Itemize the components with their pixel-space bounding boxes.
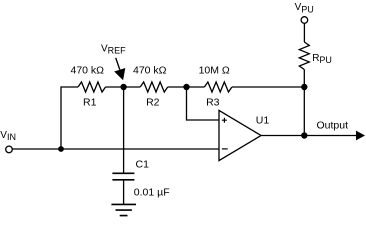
resistor R1 (78, 82, 106, 92)
ground (111, 204, 136, 215)
VREF pointer arrowhead (114, 68, 125, 80)
node VREF junction dot (120, 84, 126, 90)
svg-text:RPU: RPU (312, 53, 332, 65)
svg-text:R1: R1 (83, 96, 97, 108)
svg-text:470 kΩ: 470 kΩ (71, 65, 105, 77)
wire C1 to ground (123, 180, 125, 205)
svg-text:R3: R3 (206, 96, 220, 108)
wire op-amp output (261, 135, 356, 137)
svg-text:VIN: VIN (0, 130, 16, 142)
node B junction dot (noninverting branch) (183, 84, 189, 90)
wire R2 to node B (168, 86, 205, 88)
node C junction dot (R3 / RPU) (301, 84, 307, 90)
svg-text:10M Ω: 10M Ω (199, 65, 230, 77)
op-amp U1 minus pin (222, 148, 228, 150)
terminal VPU (301, 17, 308, 24)
input terminal VIN (6, 146, 13, 153)
wire pull-up node down to output (303, 87, 305, 136)
resistor R2 (140, 82, 168, 92)
wire node B down to noninverting input (187, 87, 220, 120)
resistor RPU (299, 42, 309, 70)
svg-text:Output: Output (317, 120, 349, 132)
svg-text:470 kΩ: 470 kΩ (133, 65, 167, 77)
wire VPU terminal to RPU (303, 23, 305, 42)
VREF pointer arrow line (116, 58, 120, 70)
svg-text:VREF: VREF (101, 44, 126, 56)
wire R1 to node VREF (106, 86, 141, 88)
wire left branch up from VIN line to R1 (61, 87, 78, 149)
svg-text:U1: U1 (256, 115, 270, 127)
output arrowhead (356, 131, 365, 141)
svg-text:C1: C1 (136, 159, 150, 171)
op-amp U1 plus pin (222, 118, 227, 123)
svg-text:R2: R2 (146, 96, 160, 108)
op-amp U1 (219, 110, 261, 160)
wire R3 to pull-up node (232, 86, 304, 88)
capacitor C1 (112, 173, 134, 180)
node A junction dot VIN/R1 branch (58, 146, 64, 152)
wire VREF node down to C1 (123, 87, 125, 173)
wire RPU bottom to node C (303, 70, 305, 88)
svg-text:VPU: VPU (295, 2, 314, 14)
resistor R3 (204, 82, 232, 92)
wire VIN terminal to op-amp inverting input (12, 148, 219, 150)
node D junction dot (output / pull-up) (301, 132, 307, 138)
svg-text:0.01 µF: 0.01 µF (134, 186, 170, 198)
